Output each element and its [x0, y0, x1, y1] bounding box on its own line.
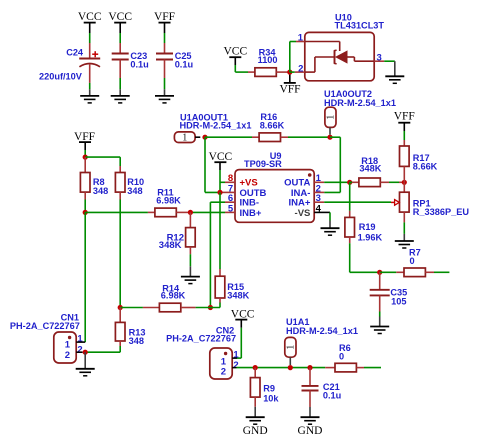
svg-text:PH-2A_C722767: PH-2A_C722767: [166, 334, 236, 344]
svg-text:5: 5: [228, 203, 234, 214]
svg-text:VCC: VCC: [231, 308, 255, 320]
svg-text:VCC: VCC: [223, 45, 247, 57]
svg-text:TP09-SR: TP09-SR: [244, 159, 282, 169]
svg-text:R9: R9: [263, 383, 275, 393]
svg-text:VFF: VFF: [74, 131, 95, 143]
svg-text:VCC: VCC: [209, 151, 233, 163]
svg-text:348: 348: [127, 186, 142, 196]
svg-text:1: 1: [326, 115, 337, 120]
svg-text:2: 2: [233, 360, 238, 371]
svg-text:1: 1: [286, 345, 297, 350]
svg-text:VCC: VCC: [108, 11, 132, 23]
svg-text:2: 2: [77, 345, 82, 356]
svg-text:10k: 10k: [263, 394, 279, 404]
svg-text:1: 1: [298, 33, 304, 44]
svg-text:GND: GND: [298, 425, 323, 437]
svg-text:2: 2: [298, 63, 303, 74]
svg-text:0.1u: 0.1u: [323, 390, 341, 400]
svg-text:R19: R19: [359, 222, 376, 232]
svg-text:6.98K: 6.98K: [161, 291, 186, 301]
svg-text:-VS: -VS: [295, 208, 311, 219]
svg-text:3: 3: [316, 193, 321, 204]
svg-text:1100: 1100: [258, 55, 278, 65]
svg-text:PH-2A_C722767: PH-2A_C722767: [10, 321, 80, 331]
svg-text:348: 348: [129, 336, 144, 346]
svg-text:8.66K: 8.66K: [260, 120, 285, 130]
svg-text:C24: C24: [66, 48, 84, 58]
svg-text:4: 4: [316, 204, 322, 215]
svg-text:1.96K: 1.96K: [358, 232, 383, 242]
svg-text:348K: 348K: [159, 240, 182, 251]
svg-text:HDR-M-2.54_1x1: HDR-M-2.54_1x1: [286, 326, 358, 336]
svg-text:0.1u: 0.1u: [175, 60, 193, 70]
svg-text:HDR-M-2.54_1x1: HDR-M-2.54_1x1: [180, 121, 252, 131]
svg-text:TL431CL3T: TL431CL3T: [335, 21, 385, 31]
svg-text:HDR-M-2.54_1x1: HDR-M-2.54_1x1: [324, 98, 396, 108]
svg-text:0.1u: 0.1u: [130, 60, 148, 70]
svg-text:348K: 348K: [227, 291, 249, 301]
svg-text:VFF: VFF: [154, 11, 175, 23]
svg-text:VFF: VFF: [279, 84, 300, 96]
svg-text:1: 1: [182, 133, 187, 144]
svg-text:VCC: VCC: [78, 11, 102, 23]
svg-text:2: 2: [221, 366, 226, 377]
svg-text:R_3386P_EU: R_3386P_EU: [413, 207, 470, 217]
svg-text:INB+: INB+: [240, 208, 262, 219]
svg-text:220uf/10V: 220uf/10V: [39, 72, 83, 82]
svg-text:GND: GND: [243, 425, 268, 437]
svg-text:3: 3: [377, 52, 382, 63]
svg-text:348K: 348K: [359, 164, 381, 174]
svg-text:2: 2: [65, 350, 70, 361]
svg-text:0: 0: [339, 351, 344, 361]
svg-text:348: 348: [93, 186, 108, 196]
svg-text:8.66K: 8.66K: [413, 161, 438, 171]
svg-text:0: 0: [410, 256, 415, 266]
svg-text:6.98K: 6.98K: [156, 196, 181, 206]
svg-text:105: 105: [391, 296, 406, 306]
svg-text:VFF: VFF: [394, 111, 415, 123]
